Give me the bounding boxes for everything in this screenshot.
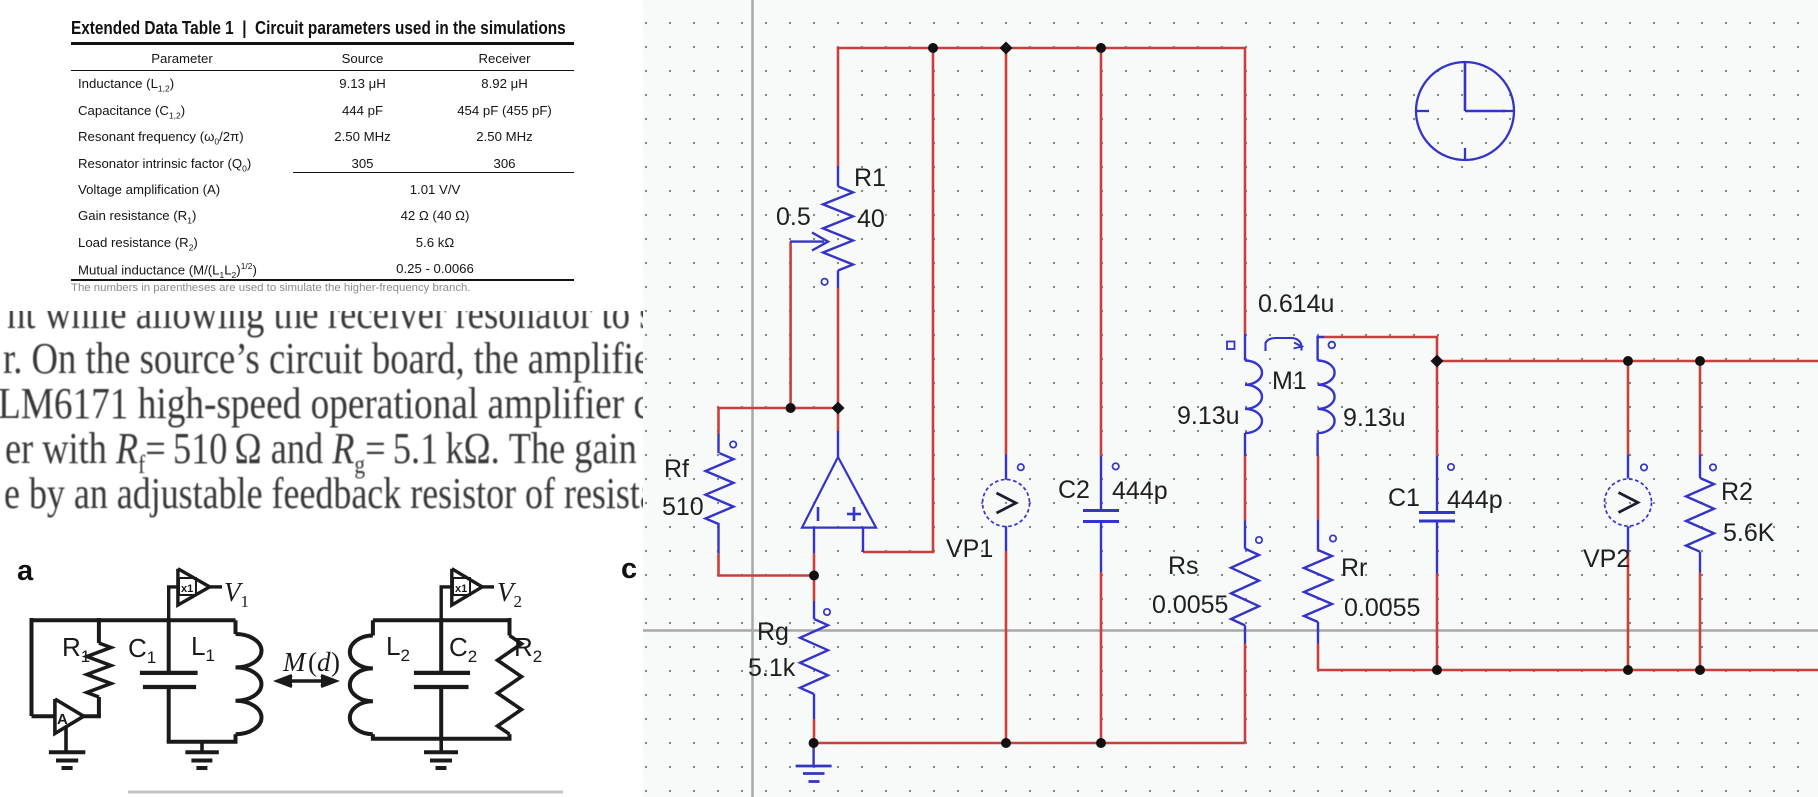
svg-text:510: 510 <box>662 493 704 521</box>
svg-text:444p: 444p <box>1447 486 1503 514</box>
svg-text:Rg: Rg <box>757 618 789 646</box>
svg-text:C2: C2 <box>1058 476 1090 504</box>
svg-text:C2: C2 <box>449 632 477 666</box>
svg-text:): ) <box>331 647 340 677</box>
svg-text:R1: R1 <box>854 164 886 192</box>
svg-text:M1: M1 <box>1272 367 1307 395</box>
svg-text:Rf: Rf <box>664 455 689 483</box>
svg-text:Rr: Rr <box>1341 554 1367 582</box>
svg-text:R2: R2 <box>1721 478 1753 506</box>
svg-text:9.13u: 9.13u <box>1177 402 1240 430</box>
svg-text:x1: x1 <box>455 583 467 595</box>
svg-text:(: ( <box>308 647 317 677</box>
svg-text:VP1: VP1 <box>946 535 993 563</box>
svg-text:c: c <box>621 553 637 585</box>
svg-text:A: A <box>57 711 68 728</box>
svg-text:0.0055: 0.0055 <box>1152 591 1228 619</box>
svg-text:5.1k: 5.1k <box>748 654 796 682</box>
svg-text:V2: V2 <box>497 577 522 611</box>
svg-text:L2: L2 <box>386 631 410 665</box>
svg-text:L1: L1 <box>191 631 215 665</box>
svg-text:R1: R1 <box>62 632 90 666</box>
svg-text:R2: R2 <box>514 632 542 666</box>
svg-text:C1: C1 <box>128 633 156 667</box>
svg-text:d: d <box>317 647 331 677</box>
svg-text:444p: 444p <box>1112 477 1168 505</box>
svg-text:9.13u: 9.13u <box>1343 404 1406 432</box>
svg-text:40: 40 <box>857 205 885 233</box>
svg-text:M: M <box>282 647 307 677</box>
svg-text:V1: V1 <box>224 577 249 611</box>
svg-text:C1: C1 <box>1388 484 1420 512</box>
svg-text:Rs: Rs <box>1168 552 1199 580</box>
svg-text:0.5: 0.5 <box>776 203 811 231</box>
svg-text:a: a <box>17 555 34 587</box>
svg-text:0.614u: 0.614u <box>1258 290 1334 318</box>
svg-text:VP2: VP2 <box>1583 545 1630 573</box>
svg-text:0.0055: 0.0055 <box>1344 594 1420 622</box>
svg-text:x1: x1 <box>181 583 193 595</box>
svg-text:5.6K: 5.6K <box>1723 519 1775 547</box>
